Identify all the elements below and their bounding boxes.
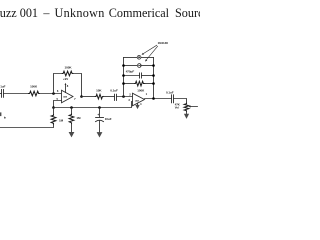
diode D1 (top clipper) bbox=[124, 55, 154, 59]
ground pin 4 bbox=[135, 102, 142, 109]
svg-text:In: In bbox=[4, 115, 7, 119]
node output stage 2 bbox=[152, 97, 155, 100]
svg-text:+9V: +9V bbox=[63, 77, 68, 81]
svg-text:100K: 100K bbox=[30, 84, 38, 88]
ground (pot) bbox=[184, 111, 189, 119]
potentiometer VR1 47K bbox=[175, 103, 198, 112]
svg-text:0.1uF: 0.1uF bbox=[110, 89, 118, 93]
wire op2 out bbox=[145, 98, 172, 100]
capacitor C4 10uF electrolytic bbox=[96, 108, 112, 122]
resistor R4 1M (left bias) bbox=[51, 108, 63, 125]
svg-text:Fuzz 001–UnknownCommericalSour: Fuzz 001–UnknownCommericalSource bbox=[0, 6, 200, 20]
svg-text:1N4148: 1N4148 bbox=[158, 41, 169, 45]
capacitor C6 470pF (feedback) bbox=[122, 70, 155, 79]
wire R4 bottom to left edge bbox=[0, 124, 54, 127]
svg-text:0.1uF: 0.1uF bbox=[0, 85, 6, 89]
svg-text:100K: 100K bbox=[137, 88, 145, 92]
svg-text:8: 8 bbox=[67, 84, 69, 88]
svg-text:3: 3 bbox=[128, 98, 130, 102]
svg-text:470pF: 470pF bbox=[126, 70, 135, 74]
svg-text:1M: 1M bbox=[76, 116, 81, 120]
op-amp U2 (pins 1,2,3,4) bbox=[133, 92, 148, 106]
wire bias rail bbox=[54, 102, 133, 108]
resistor R2 100K (feedback stage 1) bbox=[62, 66, 73, 76]
wire C1 to R1 bbox=[4, 93, 29, 95]
wire R3 to C3 bbox=[103, 96, 114, 98]
svg-text:10K: 10K bbox=[96, 88, 102, 92]
svg-text:1458: 1458 bbox=[135, 100, 139, 103]
svg-text:+: + bbox=[97, 113, 99, 117]
feedback network right leg bbox=[153, 58, 155, 99]
capacitor C5 0.1uF (output) bbox=[166, 90, 174, 103]
svg-text:10uF: 10uF bbox=[105, 117, 112, 121]
wire C3 to op-amp 2 bbox=[117, 96, 133, 98]
svg-text:1M: 1M bbox=[59, 118, 64, 122]
wire stage1 out to R3 bbox=[82, 96, 96, 98]
capacitor C1 (input, clipped at left edge) bbox=[0, 85, 6, 98]
resistor R6 100K (feedback stage 2) bbox=[122, 81, 155, 92]
svg-text:1458: 1458 bbox=[63, 95, 67, 98]
ground (R5) bbox=[69, 124, 75, 138]
wire C5 to pot bbox=[174, 99, 187, 104]
node output stage 1 bbox=[80, 95, 83, 98]
feedback network left leg bbox=[123, 58, 125, 97]
node rail cap bbox=[98, 106, 101, 109]
node A (inverting input junction) bbox=[52, 92, 55, 95]
resistor R1 100K bbox=[29, 84, 40, 95]
svg-text:Vol: Vol bbox=[175, 106, 179, 110]
node rail mid bbox=[70, 106, 73, 109]
svg-text:100K: 100K bbox=[65, 66, 73, 70]
op-amp U1 (pins 5,6,7,8) bbox=[56, 89, 76, 103]
wire feedback left leg bbox=[54, 74, 63, 94]
+9V supply arrow pin 8 bbox=[63, 77, 69, 92]
svg-text:7: 7 bbox=[74, 97, 76, 101]
label 1N4148 with pointer arrows bbox=[142, 41, 169, 62]
resistor R3 10K bbox=[95, 88, 103, 99]
ground (C4) bbox=[97, 121, 103, 138]
wire feedback right leg bbox=[73, 74, 82, 97]
node rail left bbox=[52, 106, 55, 109]
node inverting input 2 bbox=[122, 95, 125, 98]
battery stub at left edge bbox=[0, 112, 7, 119]
svg-text:1: 1 bbox=[146, 92, 148, 96]
capacitor C3 0.1uF bbox=[110, 89, 118, 101]
wire pin5 to rail bbox=[54, 101, 62, 108]
diode D2 (bottom clipper) bbox=[122, 64, 155, 68]
svg-text:6: 6 bbox=[57, 89, 59, 93]
svg-text:0.1uF: 0.1uF bbox=[166, 90, 174, 94]
resistor R5 1M (right bias) bbox=[69, 108, 81, 124]
wire R1 to op-amp bbox=[39, 93, 61, 95]
svg-text:4: 4 bbox=[140, 102, 142, 106]
svg-text:2: 2 bbox=[129, 93, 131, 97]
